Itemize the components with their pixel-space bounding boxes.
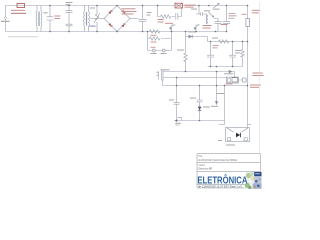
capacitor C1 bbox=[47, 6, 54, 32]
zener D10 bbox=[198, 107, 202, 111]
aux box U4 bbox=[243, 78, 247, 82]
wire right stub R4 bbox=[171, 32, 173, 51]
R7 label bbox=[237, 49, 242, 52]
bridge diode top-right bbox=[121, 10, 125, 14]
fuse F1 bbox=[17, 4, 25, 8]
jack J2 bbox=[152, 49, 155, 52]
svg-text:Title: Title bbox=[198, 155, 203, 158]
input R4 zigzag row2 bbox=[148, 38, 172, 40]
wire box right stub bbox=[248, 124, 252, 126]
input R3 zigzag on rail bbox=[150, 30, 160, 33]
transistor Q2 label bbox=[203, 25, 212, 26]
capacitor C2 bbox=[66, 6, 73, 32]
snubber wire bbox=[158, 6, 182, 20]
opto gnd stub bbox=[163, 80, 165, 86]
capacitor C2 label bbox=[66, 2, 73, 3]
output capacitor C6 bbox=[207, 42, 214, 67]
varistor RV1 bbox=[94, 6, 100, 32]
Y capacitor C9 label bbox=[229, 12, 236, 15]
GND label bbox=[175, 123, 181, 124]
load resistor label bbox=[242, 13, 247, 16]
ground stub label bbox=[211, 106, 218, 107]
R6 label bbox=[177, 50, 184, 51]
TL431 labels bbox=[224, 73, 233, 74]
flyback transformer T2 bbox=[196, 6, 208, 25]
transformer T1 label bbox=[44, 12, 48, 13]
feedback diode D9 bbox=[229, 70, 233, 74]
module diagonals bbox=[227, 128, 248, 132]
feedback resistor R6 vertical bbox=[185, 37, 187, 72]
TL431 U2 box bbox=[227, 77, 239, 83]
C7 label bbox=[235, 49, 240, 52]
feedback rail 1 bbox=[163, 72, 235, 78]
jack J3 bbox=[162, 49, 165, 52]
bridge diode top-left bbox=[108, 10, 112, 14]
TVS diode D6 bbox=[214, 3, 220, 8]
ground rail long bbox=[164, 85, 248, 87]
bridge label bbox=[122, 8, 136, 9]
wire jack row bbox=[148, 50, 172, 52]
snubber diode D5 bbox=[175, 3, 183, 8]
transistor Q2 bbox=[194, 25, 200, 32]
svg-text:AC-DB (DC/DC) Switch-Mode Pow: AC-DB (DC/DC) Switch-Mode Pow 50/60Hz bbox=[198, 158, 238, 162]
output module box bbox=[226, 128, 250, 142]
svg-text:ELETRÔNICA: ELETRÔNICA bbox=[197, 173, 247, 186]
capacitor C8 gate bbox=[214, 19, 222, 32]
capacitor C11 on feedback a bbox=[174, 103, 180, 105]
C6 label bbox=[213, 44, 219, 47]
label mains faint bbox=[8, 36, 38, 37]
ground arrow left bbox=[174, 119, 177, 122]
C10 label bbox=[190, 98, 196, 99]
D10 label bbox=[203, 107, 210, 108]
wire box left stub bbox=[219, 86, 225, 125]
bridge diode bottom-right bbox=[121, 23, 125, 27]
vertical feedback b with cap C10 bbox=[197, 86, 203, 121]
svg-text:Eletronica BR: Eletronica BR bbox=[198, 167, 212, 171]
wire bottom rail bbox=[6, 31, 227, 33]
ground stub c bbox=[216, 72, 218, 102]
title block frame bbox=[197, 154, 260, 188]
resistor labels R3 R4 bbox=[151, 34, 157, 37]
secondary diode wire bbox=[186, 32, 208, 42]
wire bridge ac left bbox=[90, 18, 104, 20]
snubber resistor label bbox=[158, 19, 164, 20]
sheet border right bbox=[258, 2, 260, 154]
wire R4 left stub bbox=[147, 32, 149, 51]
wire left vertical bbox=[5, 6, 7, 32]
common mode choke L1 bbox=[84, 6, 90, 32]
output capacitor C7 bbox=[229, 42, 236, 67]
vertical feedback a bbox=[176, 78, 178, 121]
transistor Q1 label bbox=[165, 23, 173, 24]
aux labels red bbox=[253, 73, 263, 74]
AC source V1 bbox=[4, 17, 6, 19]
output inductor L2 bbox=[219, 40, 229, 43]
diode D7 bbox=[209, 12, 215, 18]
flyback label bbox=[204, 10, 210, 11]
logo image bbox=[245, 172, 262, 189]
Y capacitor C9 bbox=[223, 6, 230, 32]
transformer T1 bbox=[36, 6, 42, 32]
ground rail bottom bbox=[175, 120, 225, 122]
wire top rail bbox=[6, 5, 248, 7]
transistor Q1 bbox=[170, 25, 176, 32]
wire bridge ac right bbox=[130, 18, 138, 20]
capacitor C5 label bbox=[147, 12, 152, 13]
capacitor C3 bbox=[66, 24, 73, 26]
L2 label bbox=[212, 38, 218, 39]
bridge rectifier D1 bbox=[104, 6, 130, 32]
snubber resistor R1 bbox=[161, 15, 171, 18]
label blue net bbox=[90, 26, 96, 27]
secondary diode D8 bbox=[189, 35, 193, 39]
divider resistor R7 vertical bbox=[242, 42, 244, 67]
fuse F1 value label bbox=[11, 10, 25, 11]
feedback rail 2 bbox=[163, 77, 227, 79]
ground row secondary bbox=[208, 66, 243, 68]
capacitor C8 label bbox=[221, 24, 228, 25]
snubber diode label bbox=[185, 5, 196, 6]
capacitor C5 bulk bbox=[139, 6, 147, 32]
choke L1 label bbox=[90, 8, 95, 9]
load resistor R load bbox=[246, 19, 250, 27]
module diode bbox=[236, 133, 240, 138]
ground jog bbox=[177, 117, 181, 120]
module label bbox=[226, 145, 235, 146]
opto U3 bbox=[157, 71, 164, 81]
load rail right bbox=[247, 6, 249, 128]
output row wire bbox=[208, 41, 248, 43]
bridge diode bottom-left bbox=[108, 23, 112, 27]
opto U3 label bbox=[161, 69, 170, 70]
jack labels bbox=[151, 53, 157, 54]
secondary diode label bbox=[188, 31, 196, 32]
capacitor C1 label bbox=[55, 16, 61, 17]
label AC-IN bbox=[1, 21, 10, 22]
module pads bbox=[228, 138, 231, 141]
TVS label bbox=[213, 9, 220, 10]
